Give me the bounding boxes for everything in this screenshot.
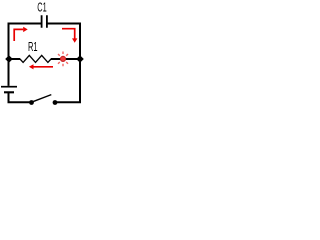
svg-text:R1: R1 bbox=[28, 40, 38, 54]
svg-text:C1: C1 bbox=[37, 0, 46, 14]
